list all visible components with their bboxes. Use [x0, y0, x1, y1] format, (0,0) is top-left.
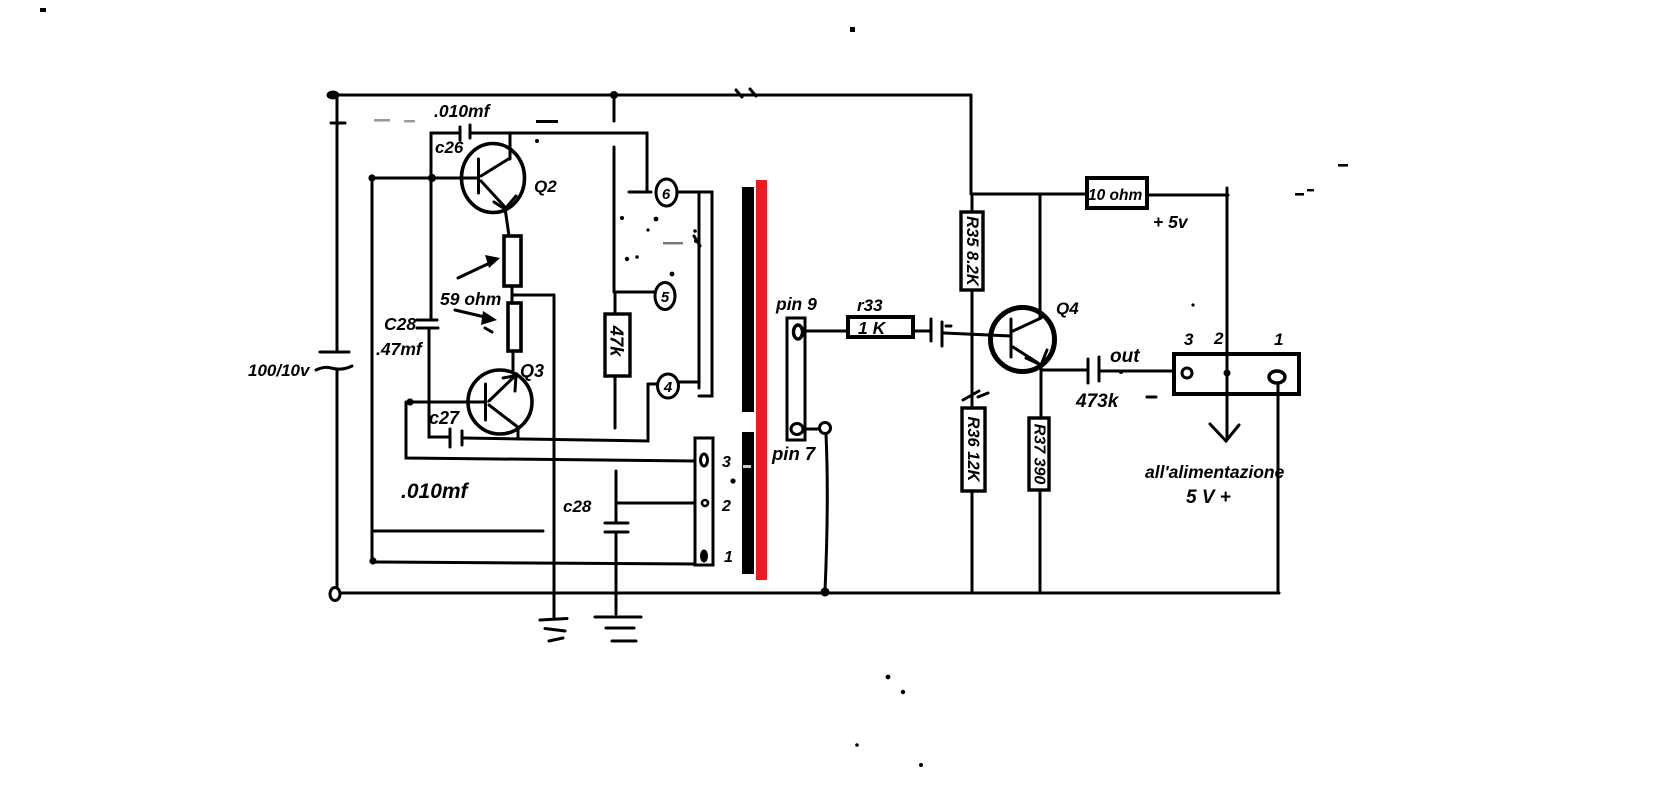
- node inner rail bottom: [369, 557, 376, 564]
- resistor r33: [848, 317, 913, 338]
- node inner rail top: [368, 174, 375, 181]
- svg-text:+ 5v: + 5v: [1153, 212, 1189, 232]
- svg-text:out: out: [1110, 346, 1140, 367]
- wire +5v rail right of 10ohm: [1147, 194, 1228, 197]
- wire bottom ground rail: [340, 592, 1279, 595]
- capacitor C28 .47mf: [417, 180, 448, 437]
- svg-text:Q2: Q2: [534, 177, 557, 196]
- wire 47k branch main: [613, 147, 616, 292]
- svg-text:pin 9: pin 9: [775, 294, 817, 314]
- svg-text:all'alimentazione: all'alimentazione: [1145, 462, 1285, 482]
- capacitor c26: [431, 125, 470, 178]
- svg-text:c27: c27: [429, 408, 460, 428]
- wire cap to Q4 base: [944, 333, 1011, 336]
- svg-text:C28: C28: [384, 314, 416, 334]
- svg-text:1: 1: [1274, 330, 1283, 349]
- ground G2: [595, 617, 641, 641]
- svg-text:1 K: 1 K: [858, 318, 887, 338]
- core notch: [743, 465, 751, 468]
- svg-text:c26: c26: [435, 138, 464, 157]
- svg-text:R36 12K: R36 12K: [964, 416, 982, 482]
- wire down to connector pin2: [1226, 195, 1229, 356]
- wire 47k top stub: [614, 292, 617, 314]
- wire between 59ohm resistors: [511, 286, 514, 303]
- capacitor out 473k: [1088, 357, 1099, 383]
- resistor 59ohm lower: [508, 303, 521, 351]
- arrow lower to 59ohm: [455, 310, 497, 332]
- arrow to power: [1210, 394, 1239, 441]
- resistor 59ohm upper: [504, 236, 521, 286]
- svg-text:3: 3: [722, 454, 731, 471]
- svg-text:100/10v: 100/10v: [248, 361, 311, 380]
- wire to Q3 collector: [512, 351, 515, 370]
- wire cap to output connector: [1101, 370, 1176, 373]
- transformer core black bar lower: [742, 432, 754, 574]
- svg-text:2: 2: [1213, 329, 1224, 348]
- transistor Q2: [462, 133, 525, 236]
- node top-left end blob: [327, 91, 340, 100]
- svg-text:3: 3: [1184, 330, 1194, 349]
- capacitor c27: [450, 429, 462, 447]
- svg-text:6: 6: [662, 186, 671, 203]
- wire pin7 stub: [803, 428, 819, 431]
- transistor Q4: [991, 194, 1055, 372]
- wire c27 emitter to pin4: [464, 384, 648, 441]
- svg-text:10 ohm: 10 ohm: [1088, 187, 1142, 204]
- wire r33 to cap: [913, 330, 929, 333]
- svg-text:5: 5: [661, 289, 670, 306]
- wire pin7 down to ground rail: [825, 434, 827, 591]
- svg-text:Q4: Q4: [1056, 299, 1079, 318]
- wire top rail: [332, 94, 971, 97]
- arrow upper to 59ohm: [458, 255, 500, 278]
- wire +5v rail left of 10ohm: [971, 193, 1087, 196]
- wire 47k bottom stub: [614, 376, 617, 428]
- transistor Q3: [468, 370, 532, 439]
- svg-text:59 ohm: 59 ohm: [440, 289, 501, 309]
- wire inner left rail: [371, 178, 374, 561]
- wire left supply rail upper: [336, 95, 339, 352]
- svg-text:473k: 473k: [1075, 391, 1120, 412]
- speck marks: [40, 8, 1348, 767]
- resistor 47k: [605, 314, 630, 376]
- transformer core black bar upper: [742, 187, 754, 412]
- svg-text:.47mf: .47mf: [376, 339, 424, 359]
- node top rail junction: [610, 91, 618, 99]
- node bottom rail junction pin7: [821, 588, 830, 597]
- node Q2 base junction: [428, 174, 436, 182]
- wire Q4 emitter out: [1042, 369, 1086, 372]
- node tick on left rail: [331, 122, 345, 125]
- node small on out wire: [1119, 370, 1123, 374]
- wire 47k branch top stub: [613, 95, 616, 121]
- wire c26 to pin6: [472, 133, 647, 191]
- wire right drop to +5v rail: [970, 95, 973, 194]
- wire left supply rail lower: [336, 369, 339, 588]
- svg-text:pin 7: pin 7: [771, 443, 817, 464]
- wire Q4 emitter to R37: [1040, 368, 1043, 418]
- pin 6: [629, 179, 699, 206]
- node bottom-left ring: [330, 588, 340, 601]
- pin9/pin7 connector: [787, 318, 805, 440]
- svg-text:5 V +: 5 V +: [1186, 487, 1231, 508]
- capacitor coupling Q4 base: [931, 319, 951, 346]
- ground G1: [540, 619, 567, 642]
- wire c28 to pin2: [616, 502, 695, 505]
- svg-text:47k: 47k: [607, 325, 628, 359]
- pin 4: [648, 374, 699, 398]
- resistor R36: [962, 408, 985, 593]
- transformer primary bracket: [699, 192, 712, 396]
- wire pin9 to r33: [803, 330, 848, 333]
- svg-text:Q3: Q3: [520, 361, 544, 381]
- wire pin2 through connector: [1226, 356, 1229, 394]
- svg-text:R37 390: R37 390: [1031, 424, 1048, 485]
- dash right of 473k: [1147, 396, 1156, 399]
- transformer core red bar: [756, 180, 767, 580]
- wire squiggle above R36: [963, 391, 988, 400]
- pin 5: [655, 283, 675, 310]
- capacitor c28: [605, 471, 628, 614]
- svg-text:1: 1: [724, 549, 733, 566]
- secondary connector 3-2-1: [695, 438, 713, 565]
- output connector: [1174, 354, 1299, 394]
- svg-text:r33: r33: [857, 296, 883, 315]
- capacitor 100/10v plates: [316, 352, 352, 370]
- wire Q2 base: [372, 177, 477, 180]
- svg-text:4: 4: [663, 379, 673, 396]
- svg-text:R35 8.2K: R35 8.2K: [963, 216, 981, 287]
- wire to connector pin1: [373, 562, 695, 564]
- node corner tick at +5v corner: [1226, 188, 1229, 200]
- node pin7 terminal ring: [820, 423, 831, 434]
- wire connector pin1 to ground rail: [1277, 383, 1280, 593]
- node Q3 base end: [406, 398, 413, 405]
- svg-text:c28: c28: [563, 497, 592, 516]
- resistor R35: [961, 194, 983, 408]
- svg-text:.010mf: .010mf: [434, 101, 492, 121]
- wire stub branch y531: [373, 530, 543, 533]
- wire 59ohm mid branch: [512, 294, 554, 297]
- wire Q3 base to pin3: [406, 402, 695, 461]
- resistor 10 ohm: [1087, 178, 1147, 208]
- svg-text:2: 2: [721, 498, 731, 515]
- wire to pin5: [614, 291, 655, 294]
- svg-text:.010mf: .010mf: [401, 480, 470, 503]
- resistor R37: [1029, 418, 1049, 593]
- wire Q3 base: [410, 401, 486, 404]
- wire tall emitter-ground line: [553, 295, 556, 619]
